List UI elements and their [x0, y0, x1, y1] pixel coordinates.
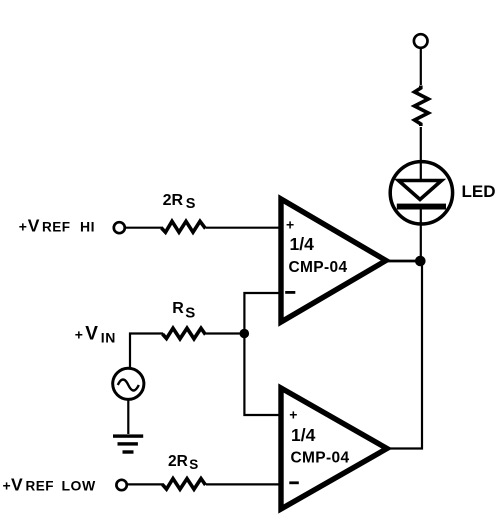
node VIN junction — [240, 329, 250, 339]
wire source to ground — [127, 400, 129, 435]
wire VREF LOW terminal to resistor — [128, 483, 165, 485]
wire VIN node to - input of top comparator — [244, 293, 282, 333]
resistor R pull-up (vertical) — [415, 86, 429, 127]
svg-text:LED: LED — [462, 182, 496, 201]
svg-text:+: + — [289, 407, 297, 423]
terminal V+ (top output terminal) — [414, 34, 428, 48]
resistor RS — [163, 328, 206, 339]
wire output node down right side to bottom comparator output — [389, 263, 422, 449]
wire resistor to LED anode — [420, 127, 422, 163]
ground — [113, 434, 143, 453]
pin - (top comparator inverting) — [285, 291, 295, 294]
wire LED cathode to output node — [420, 222, 422, 259]
pin - (bottom comparator inverting) — [289, 481, 299, 484]
svg-text:1/4: 1/4 — [291, 425, 316, 445]
wire resistor 2RS to - input of bottom comparator — [206, 483, 282, 485]
terminal VREF LOW input — [116, 480, 126, 490]
svg-text:CMP-04: CMP-04 — [289, 259, 348, 276]
op-amp U1b comparator 1/4 CMP-04 (bottom) — [281, 388, 387, 509]
svg-text:CMP-04: CMP-04 — [291, 450, 350, 467]
wire VREF HI terminal to resistor — [126, 227, 164, 229]
terminal VREF HI input — [114, 222, 125, 233]
resistor 2RS (top) — [162, 221, 206, 232]
wire VIN node to + input of bottom comparator — [244, 334, 282, 415]
resistor 2RS (bottom) — [163, 479, 206, 490]
wire top comparator output to node — [384, 260, 418, 263]
svg-text:1/4: 1/4 — [290, 234, 315, 254]
node output junction — [415, 256, 426, 267]
wire resistor 2RS to + input of top comparator — [206, 227, 282, 229]
LED D1 — [390, 162, 452, 224]
wire resistor RS to VIN node — [206, 332, 244, 334]
wire terminal to pull-up resistor — [420, 48, 422, 85]
svg-text:+: + — [286, 217, 294, 233]
wire VIN corner to resistor RS — [130, 334, 163, 368]
op-amp U1a comparator 1/4 CMP-04 (top) — [281, 199, 386, 322]
source VS (sine generator) — [113, 368, 144, 399]
